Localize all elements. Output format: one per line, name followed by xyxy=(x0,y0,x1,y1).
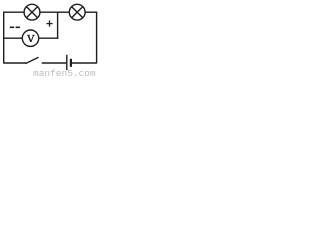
voltmeter V1 xyxy=(22,30,38,46)
wire top-left xyxy=(4,11,25,13)
wire bottom-middle xyxy=(42,62,67,64)
battery short plate xyxy=(70,59,72,67)
wire top-right xyxy=(85,11,97,13)
wire bottom-left xyxy=(4,62,27,64)
wire voltmeter right xyxy=(39,37,59,39)
wire bottom-right xyxy=(71,62,97,64)
battery long plate xyxy=(66,55,68,70)
label plus xyxy=(47,21,53,27)
wire top-middle xyxy=(40,11,69,13)
lamp L2 xyxy=(69,4,85,20)
lamp L1 xyxy=(24,4,40,20)
label minus xyxy=(10,26,20,28)
wire middle vertical xyxy=(57,12,59,39)
switch S1 blade xyxy=(25,57,38,63)
wire right rail xyxy=(96,12,98,64)
wire voltmeter left xyxy=(4,37,23,39)
svg-text:manfen5.com: manfen5.com xyxy=(33,68,96,76)
wire left rail xyxy=(3,12,5,64)
